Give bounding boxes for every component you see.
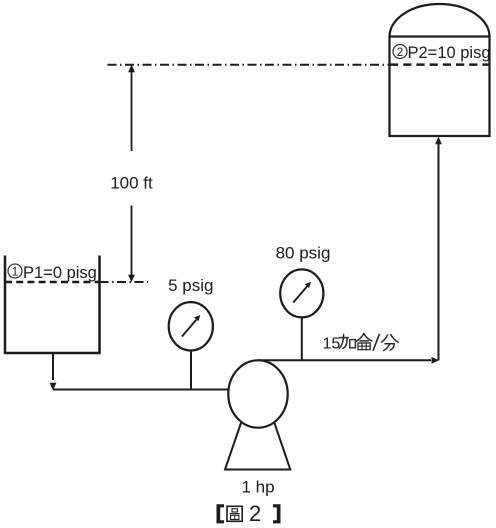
svg-text:80 psig: 80 psig — [276, 244, 331, 263]
svg-text:1: 1 — [12, 267, 18, 279]
svg-text:1 hp: 1 hp — [241, 478, 274, 497]
svg-text:100 ft: 100 ft — [110, 174, 153, 193]
svg-text:5 psig: 5 psig — [168, 276, 213, 295]
svg-text:P1=0 pisg: P1=0 pisg — [23, 264, 97, 282]
svg-text:15: 15 — [323, 336, 341, 353]
svg-text:2: 2 — [249, 501, 261, 526]
svg-text:P2=10 pisg: P2=10 pisg — [408, 44, 491, 62]
svg-text:2: 2 — [397, 47, 403, 59]
